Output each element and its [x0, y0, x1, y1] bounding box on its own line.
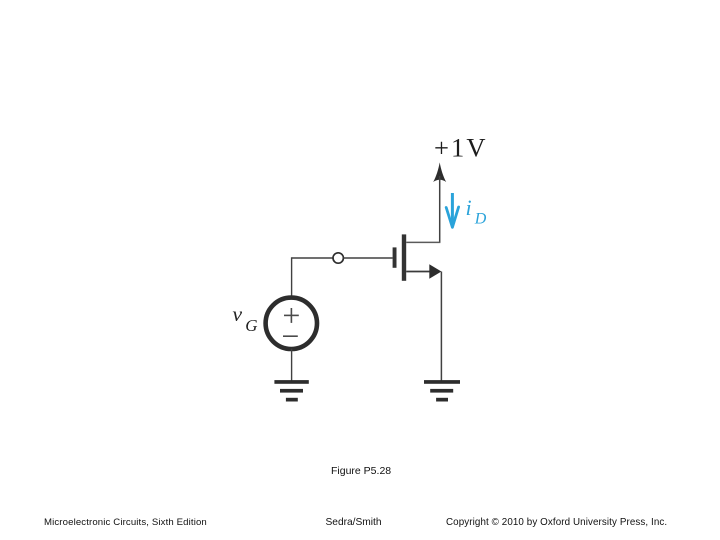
supply arrowhead — [433, 162, 446, 182]
current arrow iD (blue) — [446, 193, 458, 227]
svg-text:D: D — [474, 211, 487, 228]
transistor Q1 source lead — [406, 271, 431, 273]
wire gate horizontal (left of node) — [292, 257, 334, 259]
wire gate vertical down to vG source — [291, 257, 293, 298]
node gate open circle — [333, 253, 343, 263]
svg-text:i: i — [466, 195, 472, 220]
ground right — [424, 380, 460, 401]
ground left — [274, 380, 308, 401]
transistor Q1 gate bar — [393, 247, 397, 267]
transistor Q1 drain lead — [406, 241, 440, 243]
svg-text:v: v — [233, 302, 243, 326]
wire vG to ground — [291, 349, 293, 381]
transistor Q1 channel bar — [402, 234, 406, 280]
voltage source vG circle — [266, 298, 317, 349]
svg-text:+1V: +1V — [434, 133, 488, 163]
svg-text:Microelectronic Circuits, Sixt: Microelectronic Circuits, Sixth Edition — [44, 517, 207, 528]
svg-text:Figure P5.28: Figure P5.28 — [331, 465, 391, 477]
svg-text:Sedra/Smith: Sedra/Smith — [326, 517, 382, 528]
svg-text:G: G — [245, 316, 257, 335]
wire gate horizontal (right of node) — [343, 257, 392, 259]
wire drain vertical to supply — [439, 176, 441, 242]
wire source vertical to ground — [440, 272, 442, 381]
voltage source plus sign — [284, 308, 299, 323]
voltage source minus sign — [283, 335, 298, 337]
svg-text:Copyright © 2010 by Oxford Uni: Copyright © 2010 by Oxford University Pr… — [446, 517, 667, 528]
transistor Q1 source arrow — [429, 264, 441, 278]
